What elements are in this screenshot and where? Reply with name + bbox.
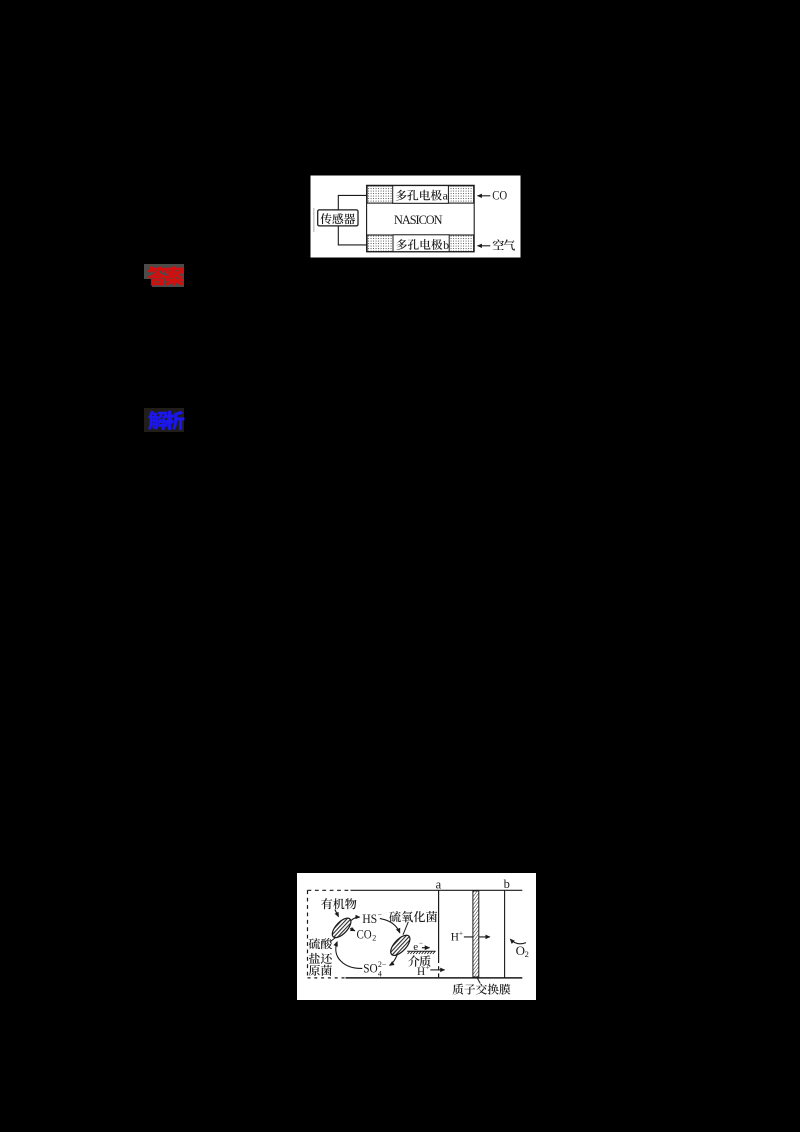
proton exchange membrane (hatched)	[473, 891, 479, 977]
pointer line membrane to label	[477, 977, 480, 983]
svg-text:4: 4	[378, 970, 382, 979]
electrode a vertical line	[438, 890, 440, 959]
arc bacterium 2 to SO4	[390, 955, 397, 965]
CO sensor schematic (top diagram)	[310, 175, 521, 258]
fuel cell diagram white background	[297, 873, 536, 1000]
SO4^2- label	[363, 960, 387, 978]
svg-text:HS: HS	[362, 912, 377, 926]
svg-text:+: +	[459, 929, 463, 938]
label box 多孔电极a	[393, 186, 449, 204]
arrow bacterium 1 to HS-	[351, 917, 360, 921]
mediator surface line	[407, 950, 436, 952]
e- label	[413, 938, 423, 953]
svg-text:−: −	[419, 938, 423, 947]
top wire (solid)	[351, 889, 523, 891]
wire from sensor box to top electrode	[338, 195, 366, 210]
svg-text:b: b	[443, 238, 449, 252]
faint gray cursor line	[313, 208, 314, 232]
CO inlet arrow	[478, 195, 491, 197]
electrode a dashed lower part	[438, 959, 440, 978]
mediator label 介质	[408, 955, 430, 966]
HS- label	[362, 910, 382, 926]
arc SO4 to bacterium 1	[336, 942, 362, 969]
svg-text:a: a	[436, 877, 442, 891]
svg-text:+: +	[425, 963, 429, 972]
H+ arrow to electrode a	[430, 969, 444, 971]
bottom boundary dashed part	[308, 977, 346, 979]
label 盐还	[309, 953, 332, 964]
CO2 label	[357, 928, 377, 943]
red highlighted label 答案 (answer)	[144, 264, 184, 280]
O2 label	[516, 943, 529, 959]
blue text 解析	[148, 411, 184, 430]
label 硫酸	[309, 938, 332, 949]
arrow e- to electrode a	[422, 947, 430, 949]
blue highlighted label 解析 (analysis)	[144, 408, 184, 431]
pointer label to bacterium 2	[403, 922, 408, 935]
organic matter label 有机物	[321, 898, 356, 909]
svg-text:2: 2	[525, 949, 529, 959]
microbial fuel cell schematic (bottom diagram)	[297, 873, 536, 1000]
bottom wire (solid)	[346, 977, 523, 979]
svg-text:CO: CO	[492, 189, 507, 203]
air label 空气	[493, 239, 515, 250]
O2 curved arrow	[510, 939, 526, 944]
svg-text:CO: CO	[357, 928, 372, 942]
sulfur oxidizing bacteria label 硫氧化菌	[389, 911, 437, 922]
electrode assembly outer rect	[367, 185, 475, 252]
svg-text:−: −	[378, 910, 383, 919]
pointer from 硫酸盐还原菌 label to bacterium 1	[330, 937, 336, 942]
air inlet arrow	[478, 245, 491, 247]
svg-text:O: O	[516, 943, 525, 958]
arc HS- to bacterium 2	[380, 919, 400, 933]
label box 多孔电极b	[393, 235, 449, 252]
H+ arrow through membrane	[464, 936, 490, 938]
H+ label middle	[451, 929, 463, 944]
sulfate reducing bacterium (hatched ellipse)	[329, 915, 354, 941]
sensor box 传感器	[318, 210, 358, 226]
svg-text:2−: 2−	[378, 960, 387, 969]
svg-text:2: 2	[372, 934, 376, 943]
label 原菌	[309, 965, 332, 976]
sensor diagram white background	[311, 176, 521, 258]
mediator hatching ticks	[408, 952, 435, 955]
svg-text:SO: SO	[363, 960, 377, 975]
H+ label bottom	[417, 963, 429, 978]
sulfur oxidizing bacterium (hatched ellipse)	[387, 932, 413, 958]
porous electrode bottom bar (dotted)	[367, 235, 474, 252]
membrane label 质子交换膜	[453, 984, 511, 995]
red text 答案	[148, 266, 184, 285]
dashed left wall of anaerobic compartment	[307, 890, 309, 978]
svg-text:H: H	[417, 966, 425, 978]
svg-text:H: H	[451, 932, 459, 944]
svg-text:b: b	[504, 877, 510, 891]
svg-text:a: a	[443, 189, 449, 203]
porous electrode top bar (dotted)	[367, 186, 474, 203]
electrode b vertical line	[504, 890, 506, 978]
top boundary dashed part	[308, 889, 351, 891]
wire from sensor box to bottom electrode	[338, 226, 366, 245]
arrow bacterium 1 to CO2	[350, 929, 355, 931]
arrow organics to bacterium 1	[335, 910, 339, 917]
svg-text:NASICON: NASICON	[394, 213, 443, 227]
